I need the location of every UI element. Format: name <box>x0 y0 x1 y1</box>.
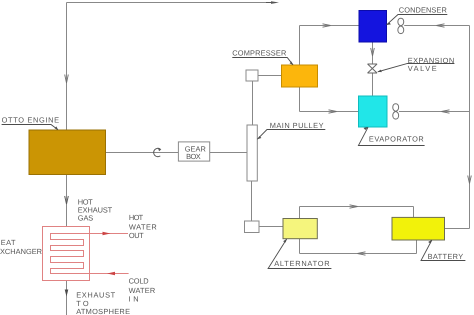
svg-text:VALVE: VALVE <box>408 64 437 73</box>
svg-text:COLD: COLD <box>129 277 149 286</box>
svg-text:ATMOSPHERE: ATMOSPHERE <box>76 307 130 315</box>
svg-text:CONDENSER: CONDENSER <box>399 5 447 14</box>
svg-text:ALTERNATOR: ALTERNATOR <box>274 259 329 268</box>
svg-text:IN: IN <box>129 295 139 304</box>
svg-text:HOT: HOT <box>129 213 144 222</box>
svg-text:OTTO ENGINE: OTTO ENGINE <box>2 115 60 124</box>
svg-text:OUT: OUT <box>129 231 144 240</box>
svg-text:GAS: GAS <box>78 214 93 223</box>
svg-text:MAIN PULLEY: MAIN PULLEY <box>270 121 324 130</box>
svg-text:EVAPORATOR: EVAPORATOR <box>369 134 424 143</box>
svg-text:COMPRESSER: COMPRESSER <box>232 49 286 58</box>
svg-text:BOX: BOX <box>186 152 201 161</box>
svg-text:BATTERY: BATTERY <box>428 252 464 261</box>
svg-text:EXCHANGER: EXCHANGER <box>0 247 42 256</box>
